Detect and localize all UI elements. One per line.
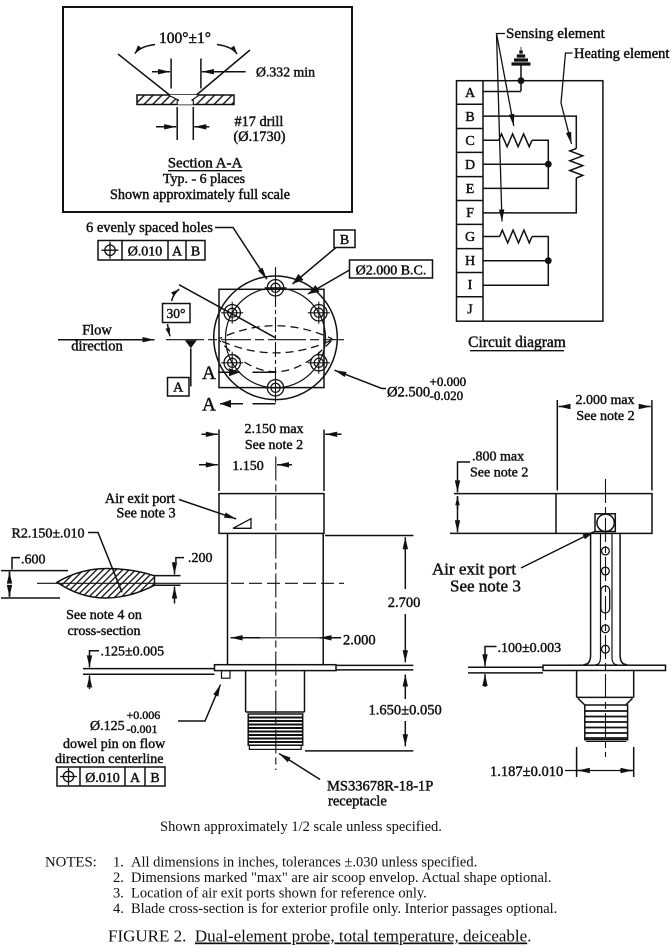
- svg-text:(Ø.1730): (Ø.1730): [234, 129, 286, 145]
- svg-text:A: A: [130, 771, 141, 786]
- svg-text:B: B: [340, 233, 349, 248]
- svg-text:All dimensions in inches, tole: All dimensions in inches, tolerances ±.0…: [131, 855, 477, 871]
- svg-text:2.150 max: 2.150 max: [244, 422, 303, 437]
- svg-text:Heating element: Heating element: [574, 46, 669, 62]
- svg-text:2.: 2.: [113, 870, 124, 886]
- svg-text:See note 2: See note 2: [576, 409, 634, 424]
- svg-text:.100±0.003: .100±0.003: [498, 641, 562, 656]
- svg-text:MS33678R-18-1P: MS33678R-18-1P: [327, 779, 433, 795]
- svg-text:Ø2.000 B.C.: Ø2.000 B.C.: [356, 264, 427, 279]
- svg-text:#17 drill: #17 drill: [235, 114, 284, 130]
- svg-text:A: A: [172, 245, 183, 260]
- svg-text:Ø.010: Ø.010: [128, 245, 163, 260]
- svg-text:See note 2: See note 2: [470, 466, 528, 481]
- svg-text:A: A: [202, 363, 216, 384]
- svg-text:.800 max: .800 max: [472, 450, 524, 465]
- svg-text:1.: 1.: [113, 855, 124, 871]
- svg-text:See note 3: See note 3: [450, 577, 521, 596]
- svg-text:D: D: [465, 158, 475, 173]
- svg-text:4.: 4.: [113, 901, 124, 917]
- svg-text:1.150: 1.150: [232, 459, 264, 474]
- svg-text:Circuit diagram: Circuit diagram: [468, 334, 566, 351]
- svg-text:Section A-A: Section A-A: [168, 156, 243, 172]
- svg-text:C: C: [465, 134, 474, 149]
- svg-text:3.: 3.: [113, 886, 124, 902]
- svg-text:A: A: [202, 395, 216, 416]
- svg-text:cross-section: cross-section: [67, 624, 140, 639]
- svg-text:See note 2: See note 2: [245, 438, 303, 453]
- svg-text:A: A: [465, 86, 476, 101]
- svg-text:Flow: Flow: [82, 323, 112, 339]
- svg-text:Dimensions marked "max" are ai: Dimensions marked "max" are air scoop en…: [131, 870, 552, 886]
- svg-text:Shown approximately 1/2 scale: Shown approximately 1/2 scale unless spe…: [160, 819, 442, 835]
- svg-text:+0.006: +0.006: [127, 708, 161, 722]
- svg-text:Location of air exit ports sho: Location of air exit ports shown for ref…: [131, 886, 427, 902]
- svg-text:NOTES:: NOTES:: [45, 855, 97, 871]
- svg-text:F: F: [466, 206, 474, 221]
- svg-text:Typ. - 6 places: Typ. - 6 places: [163, 172, 245, 187]
- svg-text:+0.000: +0.000: [430, 374, 467, 389]
- svg-text:.600: .600: [21, 553, 46, 568]
- svg-text:B: B: [150, 771, 159, 786]
- svg-text:2.700: 2.700: [388, 595, 421, 611]
- svg-text:Shown approximately full scale: Shown approximately full scale: [110, 187, 290, 203]
- svg-text:2.000 max: 2.000 max: [575, 393, 634, 408]
- svg-text:.200: .200: [188, 551, 213, 566]
- svg-text:Ø.125: Ø.125: [90, 719, 125, 734]
- svg-text:-0.020: -0.020: [430, 388, 464, 403]
- svg-text:direction: direction: [71, 339, 123, 355]
- svg-text:direction centerline: direction centerline: [55, 752, 163, 767]
- svg-text:A: A: [173, 381, 184, 396]
- svg-text:Ø2.500: Ø2.500: [387, 385, 430, 401]
- svg-text:Ø.010: Ø.010: [85, 771, 120, 786]
- svg-text:E: E: [466, 182, 475, 197]
- svg-text:B: B: [191, 245, 200, 260]
- svg-text:H: H: [465, 254, 475, 269]
- svg-text:Sensing element: Sensing element: [506, 26, 606, 42]
- svg-text:receptacle: receptacle: [328, 794, 387, 810]
- svg-text:See note 3: See note 3: [116, 506, 175, 522]
- svg-text:6 evenly spaced holes: 6 evenly spaced holes: [86, 220, 213, 236]
- svg-text:2.000: 2.000: [343, 633, 376, 649]
- svg-text:J: J: [467, 303, 473, 318]
- svg-text:30°: 30°: [167, 306, 186, 321]
- svg-text:dowel pin on flow: dowel pin on flow: [63, 737, 166, 752]
- svg-text:1.650±0.050: 1.650±0.050: [369, 703, 442, 719]
- svg-text:See note 4 on: See note 4 on: [66, 608, 142, 623]
- svg-text:-0.001: -0.001: [127, 722, 158, 736]
- svg-text:B: B: [465, 110, 474, 125]
- svg-text:G: G: [465, 230, 475, 245]
- svg-text:.125±0.005: .125±0.005: [101, 645, 165, 660]
- svg-text:Blade cross-section is for ext: Blade cross-section is for exterior prof…: [131, 901, 557, 917]
- svg-text:Ø.332 min: Ø.332 min: [256, 65, 315, 80]
- svg-text:I: I: [468, 278, 473, 293]
- svg-text:1.187±0.010: 1.187±0.010: [490, 764, 563, 780]
- svg-text:R2.150±.010: R2.150±.010: [12, 527, 85, 542]
- svg-text:100°±1°: 100°±1°: [159, 30, 211, 47]
- svg-text:FIGURE 2. Dual-element probe,: FIGURE 2. Dual-element probe, total temp…: [108, 927, 531, 946]
